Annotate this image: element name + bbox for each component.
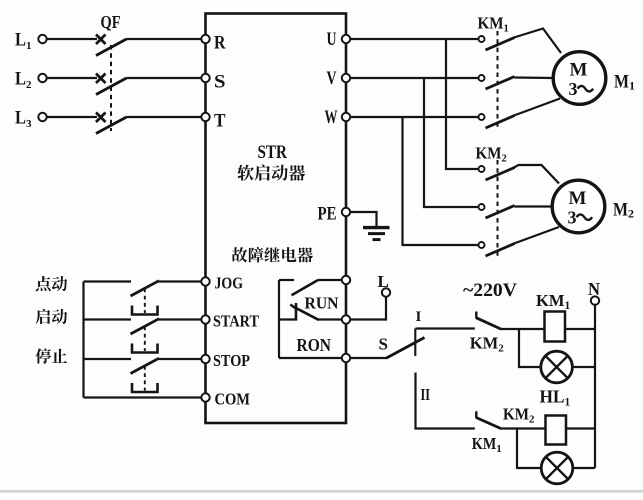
pushbutton SB jog blade (131, 281, 160, 296)
contact KM2 interlock post (475, 312, 477, 319)
wire position I to KM2 interlock (416, 327, 475, 329)
terminal RON pin (342, 354, 350, 362)
wire PE to ground (350, 212, 376, 227)
wire L2 to QF pole 2 (47, 77, 97, 79)
label jog (chinese) (36, 276, 67, 291)
svg-text:KM2: KM2 (470, 334, 505, 355)
wire L3 to QF pole 3 (47, 116, 97, 118)
wire KM1 coil to N rail (565, 328, 595, 330)
motor M1 text M 3~ (569, 60, 594, 100)
coil KM2 (546, 416, 567, 445)
breaker QF pole 3 blade (96, 117, 127, 134)
wire RUN blade to relay top terminal (318, 279, 342, 281)
svg-text:M1: M1 (614, 72, 635, 93)
contactor KM1 pole 3 terminal (479, 114, 485, 120)
breaker QF pole 3 fixed contact (x mark) (96, 113, 106, 123)
contactor KM1 pole 2 terminal (479, 75, 485, 81)
terminal relay top pin (342, 276, 350, 284)
wire branch to lamp HL2 (517, 429, 541, 469)
contactor KM2 pole 2 blade (486, 206, 515, 219)
wire branch to lamp HL1 (519, 329, 541, 367)
terminal START pin (201, 311, 259, 330)
terminal L1 (15, 30, 47, 53)
wire QF pole 1 to terminal R (127, 38, 202, 40)
svg-text:R: R (214, 33, 226, 54)
lamp HL1 (541, 351, 573, 383)
contactor KM1 pole 2 blade (486, 77, 515, 90)
svg-text:KM1: KM1 (536, 291, 571, 312)
wire KM2 pole1 to motor M2 (514, 165, 559, 184)
terminal T pin (201, 111, 225, 132)
svg-text:KM2: KM2 (503, 405, 535, 426)
svg-text:3: 3 (568, 208, 577, 228)
svg-text:PE: PE (318, 205, 337, 225)
terminal STOP pin (201, 351, 250, 370)
svg-text:L: L (378, 272, 389, 291)
breaker QF pole 2 blade (96, 78, 127, 95)
svg-text:STOP: STOP (213, 351, 250, 370)
wire SB stop to terminal (159, 358, 202, 360)
svg-text:STR: STR (258, 142, 288, 163)
relay RON contact post (290, 303, 296, 321)
contact KM1 interlock post (475, 411, 477, 418)
selector position I stub (414, 329, 416, 357)
pushbutton SB start actuator (132, 344, 158, 353)
soft starter U1 STR block outline (206, 14, 347, 424)
svg-text:START: START (213, 311, 260, 330)
wire QF pole 2 to terminal S (127, 77, 202, 79)
svg-text:KM1: KM1 (472, 434, 502, 455)
relay RUN blade (open) (292, 280, 319, 295)
breaker QF mechanical link (dashed) (110, 45, 112, 131)
label stop (chinese) (35, 348, 67, 363)
terminal S pin (201, 72, 225, 93)
wire RON terminal to selector S (350, 357, 387, 359)
contactor KM2 pole 1 blade (486, 168, 515, 181)
wire KM1 pole3 to motor M1 (514, 99, 560, 116)
svg-text:JOG: JOG (215, 273, 244, 292)
svg-text:I: I (416, 309, 422, 325)
svg-text:M: M (570, 60, 588, 81)
terminal V pin (327, 68, 351, 89)
wire V to KM1 pole2 (350, 77, 478, 79)
contact KM1 interlock blade (476, 418, 501, 429)
breaker QF pole 1 blade (96, 39, 127, 56)
svg-text:M2: M2 (613, 200, 634, 221)
wire bus to SB stop (84, 358, 132, 360)
contactor KM2 pole 1 terminal (479, 166, 485, 172)
wire V branch to KM2 pole2 (424, 78, 479, 207)
terminal PE pin (318, 205, 351, 225)
pushbutton SB start link (dashed) (144, 327, 146, 352)
selector S blade (387, 338, 425, 359)
wire position II branch (416, 373, 475, 429)
contactor KM1 pole 1 blade (486, 38, 515, 51)
soft starter U1 label (soft starter chinese) (237, 165, 305, 181)
pushbutton SB jog link (dashed) (144, 289, 146, 314)
pushbutton SB jog actuator (132, 306, 158, 315)
scan shading band at page bottom (0, 490, 643, 493)
wire bus to SB start (84, 318, 132, 320)
wire KM2 pole2 to motor M2 (515, 205, 553, 207)
wire QF pole 3 to terminal T (127, 116, 202, 118)
fault relay label (chinese) (232, 247, 313, 262)
wire KM2 pole3 to motor M2 (514, 227, 559, 244)
wire L1 to QF pole 1 (47, 38, 97, 40)
terminal COM pin (201, 389, 250, 408)
svg-text:II: II (421, 385, 431, 404)
wire KM1 interlock to KM2 coil (500, 427, 546, 429)
svg-text:~220V: ~220V (463, 280, 517, 301)
svg-text:T: T (214, 111, 226, 132)
svg-text:KM2: KM2 (476, 144, 507, 165)
breaker QF pole 1 fixed contact (x mark) (96, 35, 106, 45)
wire relay mid terminal to L branch (350, 318, 386, 320)
coil KM1 (545, 312, 566, 342)
wire KM1 pole1 to motor M1 (514, 29, 561, 54)
svg-text:S: S (214, 72, 226, 93)
wire SB start to terminal (159, 318, 202, 320)
terminal L (line) (378, 272, 391, 297)
terminal L2 (15, 69, 47, 92)
wire W to KM1 pole3 (350, 116, 478, 118)
pushbutton SB stop link (dashed) (144, 366, 146, 391)
wire rail to RON contact post (279, 318, 296, 320)
terminal JOG pin (201, 273, 243, 292)
contactor KM2 pole 2 terminal (479, 204, 485, 210)
terminal W pin (325, 107, 351, 128)
svg-text:L3: L3 (15, 108, 32, 131)
terminal R pin (201, 33, 225, 54)
pushbutton SB stop actuator (132, 383, 158, 392)
wire lamp HL1 to N rail (572, 366, 595, 368)
svg-text:V: V (327, 68, 337, 89)
wire L down (385, 297, 387, 321)
wire U branch to KM2 pole1 (446, 39, 479, 169)
wire pushbutton common bus (82, 282, 84, 398)
svg-text:HL1: HL1 (540, 387, 571, 409)
svg-text:S: S (379, 335, 388, 354)
motor M2 circle (552, 180, 605, 233)
svg-text:RON: RON (297, 335, 332, 355)
terminal N (588, 279, 600, 305)
relay RUN fixed stub (279, 279, 294, 281)
motor M1 circle (553, 52, 606, 105)
svg-text:KM1: KM1 (478, 14, 509, 35)
contactor KM2 pole 3 terminal (479, 242, 485, 248)
contactor KM2 pole 3 blade (486, 244, 515, 257)
wire RON blade to relay mid terminal (318, 318, 342, 320)
svg-text:3: 3 (569, 79, 578, 99)
wire KM1 pole2 to motor M1 (515, 76, 554, 79)
terminal relay mid pin (342, 315, 350, 323)
wire U to KM1 pole1 (350, 38, 478, 40)
wire KM2 coil to N rail (566, 427, 595, 429)
wire rail to RON terminal (279, 357, 342, 359)
svg-text:U: U (327, 29, 337, 50)
svg-text:N: N (588, 279, 600, 299)
svg-text:L1: L1 (15, 30, 32, 53)
svg-text:QF: QF (101, 12, 121, 32)
contactor KM1 mechanical link (dashed) (497, 31, 499, 130)
svg-text:COM: COM (215, 389, 251, 408)
motor M2 text M 3~ (568, 188, 593, 228)
wire lamp HL2 to N rail (573, 467, 595, 469)
pushbutton SB start blade (131, 319, 160, 334)
lamp HL2 (541, 452, 573, 484)
label start (chinese) (36, 309, 68, 324)
terminal U pin (327, 29, 351, 50)
svg-text:RUN: RUN (305, 294, 340, 313)
breaker QF pole 2 fixed contact (x mark) (96, 74, 106, 84)
relay RUN/RON common rail (278, 280, 280, 358)
relay RON blade (closed) (296, 308, 319, 320)
contact KM2 interlock blade (476, 318, 501, 329)
svg-text:M: M (569, 188, 587, 209)
contactor KM1 pole 1 terminal (479, 36, 485, 42)
wire W branch to KM2 pole3 (403, 117, 479, 245)
ground symbol (363, 228, 390, 240)
wire bus to SB jog (84, 280, 132, 282)
contactor KM1 pole 3 blade (486, 116, 515, 129)
contactor KM2 mechanical link (dashed) (497, 160, 499, 257)
svg-text:W: W (325, 107, 338, 128)
pushbutton SB stop blade (131, 358, 160, 373)
wire KM2 interlock to KM1 coil (500, 328, 545, 330)
terminal L3 (15, 108, 47, 131)
wire SB jog to terminal (159, 280, 202, 282)
wire bus to COM terminal (84, 396, 202, 398)
svg-text:L2: L2 (15, 69, 32, 92)
wire N rail (594, 305, 596, 468)
